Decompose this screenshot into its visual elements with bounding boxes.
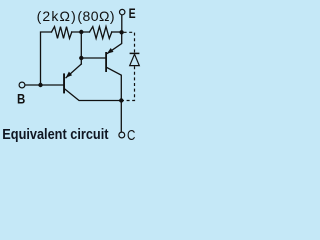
svg-text:E: E [129,6,136,22]
wire B terminal to Q1 base [25,84,63,86]
svg-text:C: C [127,127,135,144]
transistor Q2 collector + wire down to C [107,68,121,133]
resistor R1 (2kOhm) zigzag [52,27,72,39]
svg-text:(80Ω): (80Ω) [77,8,115,24]
terminal B circle [19,82,25,88]
transistor Q2 emitter diagonal + wire to E [108,32,122,53]
wire E terminal down [121,15,123,32]
transistor Q1 collector [65,89,122,101]
dashed wire diode to C [124,66,135,100]
Q1 emitter arrowhead [66,72,72,78]
transistor Q1 emitter diagonal [66,64,81,78]
wire node X down to Q1 emitter [80,58,82,64]
terminal E circle [120,9,125,14]
terminal C circle [119,132,125,138]
junction node between R1 and R2 (node X top) [79,30,83,34]
Q2 emitter arrowhead [107,48,114,54]
resistor R2 (80 Ohm) zigzag [90,27,112,39]
wire R1 to node X [72,31,90,33]
wire R2 to node E [112,31,122,33]
diode D1 cathode bar [130,52,140,54]
dashed wire E to diode [124,32,135,53]
diode D1 triangle [130,54,140,65]
svg-text:B: B [17,91,25,106]
transistor Q2 base bar [105,52,107,72]
transistor Q1 base bar [63,73,65,93]
wire top-left corner to R1 [41,32,52,85]
svg-text:Equivalent circuit: Equivalent circuit [2,125,109,142]
wire node X to Q2 base [81,57,105,59]
wire node X vertical [80,32,82,58]
junction node at C rail [119,98,123,102]
junction node at B lead [38,83,42,87]
junction node at E rail [119,30,123,34]
svg-text:(2kΩ): (2kΩ) [37,8,77,24]
junction node X lower [79,56,83,60]
